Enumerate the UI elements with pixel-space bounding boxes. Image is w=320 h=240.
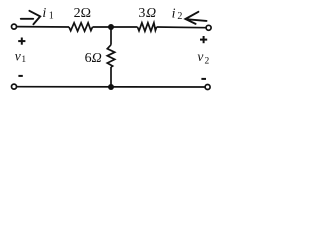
terminal (bottom-left port, open circle): [12, 84, 17, 89]
svg-text:i: i: [42, 6, 46, 21]
resistor 3ohm: [138, 23, 157, 31]
svg-text:6Ω: 6Ω: [85, 51, 102, 66]
polarity minus (left): [18, 75, 22, 77]
terminal (top-left port, open circle): [12, 24, 17, 29]
svg-text:v: v: [15, 49, 21, 64]
svg-text:3Ω: 3Ω: [138, 6, 156, 21]
resistor 2ohm: [69, 23, 93, 31]
node bottom junction: [108, 84, 114, 90]
svg-text:2: 2: [177, 11, 182, 22]
wire top-middle: [93, 26, 138, 28]
svg-text:2: 2: [205, 56, 210, 66]
polarity minus (right): [201, 78, 206, 80]
wire bottom horizontal: [17, 86, 205, 88]
svg-text:2Ω: 2Ω: [74, 6, 91, 21]
svg-text:i: i: [172, 6, 176, 21]
wire top-left horizontal: [17, 26, 69, 28]
current arrow i2: [185, 12, 206, 24]
polarity plus (right): [200, 36, 207, 43]
resistor 6ohm (vertical): [107, 45, 114, 67]
current arrow i1: [21, 11, 40, 24]
wire vertical lower (6ohm to bottom junction): [110, 67, 112, 87]
polarity plus (left): [18, 38, 25, 45]
svg-text:1: 1: [49, 11, 54, 22]
wire top-right horizontal: [157, 26, 206, 29]
svg-text:1: 1: [21, 55, 26, 65]
terminal (bottom-right port, open circle): [205, 85, 210, 90]
svg-text:v: v: [197, 49, 203, 64]
terminal (top-right port, open circle): [206, 25, 211, 30]
wire vertical upper (junction to 6ohm): [110, 27, 112, 45]
node top junction: [108, 24, 114, 30]
